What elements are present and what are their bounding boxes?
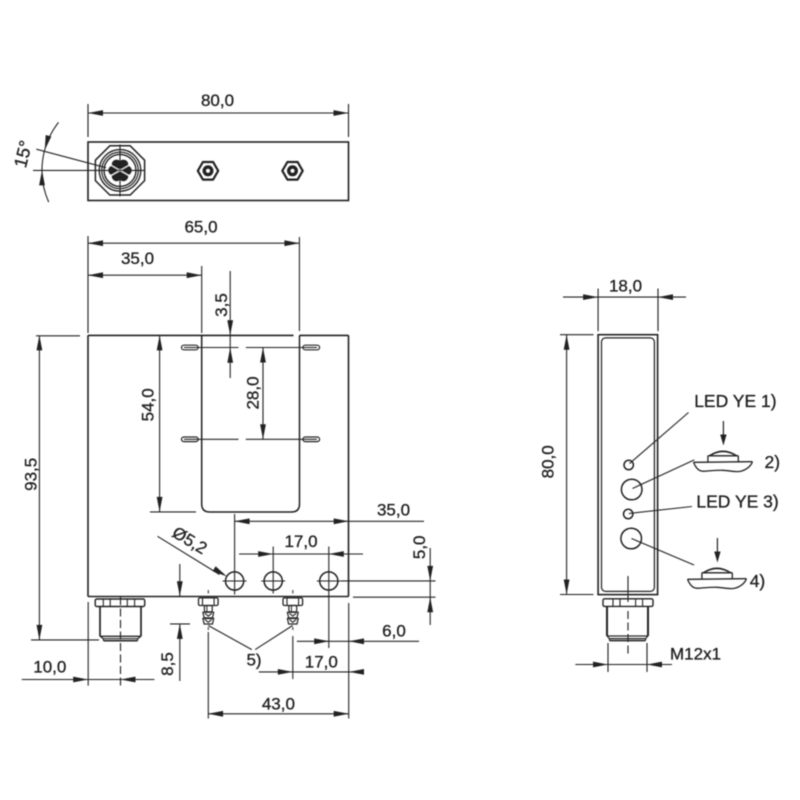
svg-text:3,5: 3,5: [212, 293, 231, 317]
svg-text:LED YE 1): LED YE 1): [694, 391, 776, 411]
svg-text:6,0: 6,0: [382, 621, 406, 640]
svg-text:LED YE 3): LED YE 3): [696, 491, 778, 511]
svg-text:80,0: 80,0: [201, 91, 234, 110]
svg-text:80,0: 80,0: [538, 445, 557, 478]
svg-text:8,5: 8,5: [158, 652, 177, 676]
svg-text:17,0: 17,0: [305, 652, 338, 671]
svg-text:65,0: 65,0: [184, 217, 217, 236]
svg-text:43,0: 43,0: [262, 695, 295, 714]
svg-text:35,0: 35,0: [121, 249, 154, 268]
svg-text:4): 4): [750, 571, 766, 591]
svg-text:5): 5): [246, 650, 261, 669]
svg-text:2): 2): [765, 452, 781, 472]
svg-text:5,0: 5,0: [410, 535, 429, 559]
svg-text:35,0: 35,0: [377, 500, 410, 519]
svg-text:M12x1: M12x1: [670, 644, 721, 663]
svg-text:28,0: 28,0: [243, 376, 262, 409]
svg-text:17,0: 17,0: [284, 532, 317, 551]
svg-text:10,0: 10,0: [33, 657, 66, 676]
svg-text:93,5: 93,5: [22, 458, 41, 491]
svg-text:18,0: 18,0: [609, 277, 642, 296]
svg-text:54,0: 54,0: [138, 388, 157, 421]
